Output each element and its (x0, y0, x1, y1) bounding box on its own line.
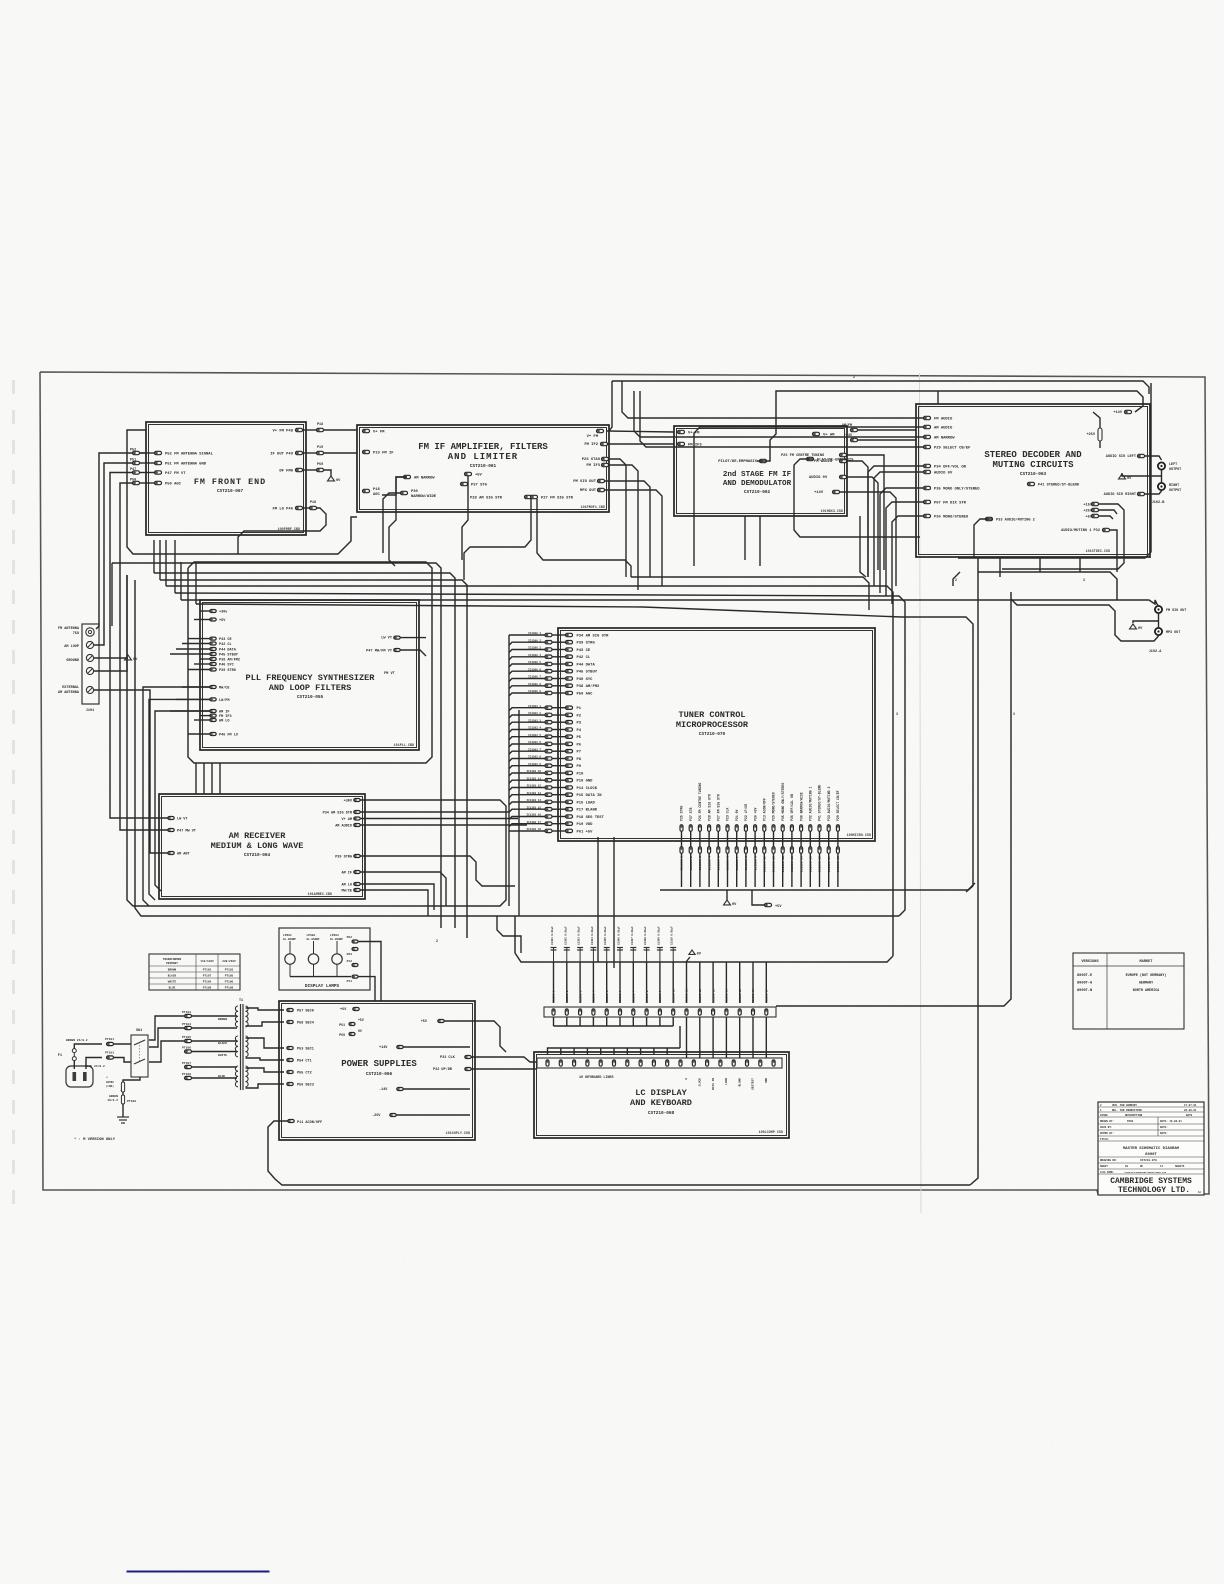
svg-text:P3: P3 (577, 722, 582, 726)
micro pinB P18 SEG TEST (545, 815, 552, 818)
micro bottom pin P28 AM SIG STR (708, 825, 711, 832)
micro bottom pin P29 MONO/STEREO (772, 825, 775, 832)
keyboard capacitors C1301-C1310 (553, 948, 555, 962)
stereo pin FM AUDIO (924, 416, 931, 419)
svg-text:P12: P12 (347, 960, 353, 963)
svg-text:PRIMARY: PRIMARY (166, 962, 178, 965)
svg-text:V+ AM: V+ AM (341, 818, 352, 822)
svg-text:P39 STRG: P39 STRG (335, 855, 352, 859)
svg-text:BROWN 24/0.2: BROWN 24/0.2 (66, 1038, 88, 1042)
svg-text:WHITE: WHITE (168, 981, 177, 984)
svg-text:2: 2 (853, 375, 855, 379)
svg-text:CST210-064: CST210-064 (244, 853, 271, 858)
svg-text:FM SIG OUT: FM SIG OUT (1166, 609, 1186, 613)
fm if exit P28 sig str (464, 499, 531, 580)
svg-text:+26V: +26V (1086, 433, 1095, 437)
stereo pin P41 STEREO/ST-BLEND (1028, 482, 1035, 485)
pll right vt wires (400, 637, 426, 639)
pll left pin wires (200, 610, 210, 612)
micro bottom pin P36 OFF/CAL ON (790, 825, 793, 832)
svg-text:(LNK): (LNK) (106, 1084, 114, 1088)
block AM RECEIVER CST210-064 (159, 794, 365, 899)
stereo pin AUDIO 0V (924, 470, 931, 473)
svg-text:AND LOOP FILTERS: AND LOOP FILTERS (269, 683, 352, 693)
svg-text:PT109: PT109 (127, 1100, 136, 1103)
fm if pin P19 FM IF (363, 450, 370, 453)
svg-text:AM RECEIVER: AM RECEIVER (229, 831, 287, 841)
micro pinA P42 CL (545, 655, 552, 658)
power pin P58 SEC4 (287, 1021, 293, 1024)
svg-text:P10 GND: P10 GND (577, 780, 594, 784)
block POWER SUPPLIES CST210-066 (279, 1001, 475, 1140)
svg-text:P34 OFF/VOL ON: P34 OFF/VOL ON (934, 465, 967, 470)
svg-text:OUTPUT: OUTPUT (1169, 489, 1181, 493)
fm if right P26 STAG exit (608, 459, 626, 577)
svg-text:P61 +5V: P61 +5V (577, 830, 594, 834)
wire +5V to lcd (444, 1021, 506, 1052)
keyboard row2 bar (537, 1058, 782, 1068)
fm if pin +5V (465, 472, 472, 475)
binder edge dashes (12, 380, 15, 1204)
stereo pin P34 OFF/VOL ON (924, 464, 931, 467)
svg-text:AM IF: AM IF (341, 871, 352, 875)
title block (1098, 1102, 1204, 1195)
svg-text:220/240V: 220/240V (222, 959, 236, 963)
micro pinB P15 DATA IN (545, 793, 552, 796)
stereo pin +26V (1092, 508, 1099, 511)
svg-text:PT107: PT107 (203, 975, 212, 978)
svg-text:P42 CL: P42 CL (219, 643, 232, 647)
micro pinB P4 (545, 728, 552, 731)
svg-text:P60: P60 (317, 463, 323, 467)
svg-text:PT103: PT103 (105, 1052, 114, 1055)
primary tap PT103 (185, 1014, 192, 1017)
svg-text:POWER SUPPLIES: POWER SUPPLIES (341, 1059, 417, 1069)
svg-text:2nd STAGE FM IF: 2nd STAGE FM IF (723, 471, 792, 479)
stereo pin P29 SELECT CB/EF (924, 445, 931, 448)
display lamps box (279, 928, 370, 990)
block STEREO DECODER CST210-063 (916, 404, 1150, 557)
pll pin +30v (210, 610, 216, 613)
svg-text:J102-B: J102-B (1152, 501, 1166, 505)
svg-text:P39 STRG: P39 STRG (219, 669, 236, 673)
stereo +26V feed capsule (1098, 428, 1102, 441)
svg-text:P52 FM ANTENNA SIGNAL: P52 FM ANTENNA SIGNAL (165, 453, 214, 457)
primary tap PT108 (185, 1076, 192, 1079)
svg-text:P36 MONO/STEREO: P36 MONO/STEREO (934, 515, 969, 520)
am rx right wires (360, 800, 506, 890)
svg-text:-26V: -26V (372, 1114, 381, 1118)
lamp LP601 (285, 954, 295, 964)
stereo pin P07 FM DIX STR (924, 500, 931, 503)
micro left bundle (508, 635, 510, 906)
svg-text:P28 AM SIG STR: P28 AM SIG STR (707, 794, 711, 821)
pll pin LW/FM (210, 698, 216, 701)
J102-B left output jack (1158, 462, 1165, 469)
wire P32 UP/DR to lcd (471, 1068, 537, 1070)
svg-text:101AMREC.CBD: 101AMREC.CBD (308, 893, 332, 897)
svg-text:C1309 0.01uF: C1309 0.01uF (657, 926, 660, 945)
svg-text:BROWN: BROWN (218, 1018, 227, 1021)
fm front end external stub P46 fm lo (310, 506, 317, 509)
stage2 pin V+ FM (678, 430, 685, 433)
svg-text:FM FRONT END: FM FRONT END (194, 477, 266, 487)
stereo left pin drops (694, 427, 924, 566)
block FM IF AMPLIFIER CST210-061 (357, 425, 609, 512)
micro pinB P7 (545, 750, 552, 753)
bus 577 line (631, 577, 869, 610)
svg-text:P2: P2 (577, 714, 582, 718)
mains plug (66, 1066, 93, 1087)
stereo pin P36 MONO/STEREO (924, 514, 931, 517)
pll pin P38 AM/FM2 (210, 658, 216, 661)
svg-text:MICROPROCESSOR: MICROPROCESSOR (676, 720, 749, 730)
svg-text:100MICRO.CSD: 100MICRO.CSD (847, 834, 871, 838)
svg-text:FM LO P46: FM LO P46 (272, 508, 293, 512)
svg-text:TITLE:: TITLE: (1100, 1138, 1109, 1141)
bus H7 sloped (196, 604, 973, 886)
svg-text:P9: P9 (577, 765, 582, 769)
pll pin P42 CL (210, 642, 216, 645)
wire front end ring inner (140, 452, 146, 454)
svg-text:PT103: PT103 (225, 969, 234, 972)
fm if right MPX OUT exit (605, 490, 662, 586)
svg-text:GERMANY: GERMANY (1139, 982, 1154, 986)
svg-text:P33 AUDIO/MUTING 2: P33 AUDIO/MUTING 2 (996, 518, 1035, 523)
svg-text:C1306 0.01uF: C1306 0.01uF (618, 926, 621, 945)
versions market table (1073, 953, 1184, 1029)
svg-text:01: 01 (1125, 1165, 1129, 1168)
svg-text:P29 SELECT CB/EF: P29 SELECT CB/EF (934, 446, 971, 451)
svg-text:P37 STG: P37 STG (471, 484, 488, 488)
svg-text:DATE: DATE (1186, 1114, 1193, 1117)
J102-A fm sig out jack (1155, 606, 1162, 613)
svg-text:100LCOMP.CSD: 100LCOMP.CSD (759, 1131, 783, 1135)
svg-text:GREEN: GREEN (109, 1095, 118, 1098)
svg-text:P19 FM IF: P19 FM IF (373, 452, 394, 456)
lamp LP602 (308, 954, 318, 964)
micro bottom pin P32 AUDIO/MUTING 1 (809, 825, 812, 832)
svg-text:+14V: +14V (814, 491, 824, 495)
stage2 bottom exits (744, 516, 746, 560)
svg-text:P29 MONO/STEREO: P29 MONO/STEREO (772, 792, 776, 821)
svg-text:AM LO: AM LO (341, 883, 352, 887)
fm if pin P30 NARROW/WIDE (401, 491, 408, 494)
svg-text:GL-960BP: GL-960BP (307, 938, 320, 941)
pll pin AM LO (210, 719, 216, 722)
svg-text:+30v: +30v (219, 610, 228, 614)
bus H3 (160, 580, 467, 938)
svg-text:P4: P4 (577, 729, 582, 733)
svg-text:P30: P30 (411, 490, 419, 494)
svg-text:SEGTEST: SEGTEST (752, 1078, 755, 1090)
fm if right FM IF3 exit (608, 465, 638, 590)
bus left verticals (111, 563, 113, 626)
svg-text:P44 DATA: P44 DATA (577, 663, 596, 667)
svg-text:LW VT: LW VT (177, 817, 188, 821)
keyboard row1 to row2 wiring (553, 1017, 555, 1026)
wire P11 loop bottom (268, 1121, 970, 1185)
svg-text:P38 AM/FM2: P38 AM/FM2 (577, 684, 601, 689)
fm if pin P37 STG (461, 482, 468, 485)
svg-text:PLL FREQUENCY SYNTHESIZER: PLL FREQUENCY SYNTHESIZER (246, 673, 376, 683)
svg-text:V+ FM: V+ FM (587, 435, 599, 439)
svg-text:P27 FM SIG STR: P27 FM SIG STR (717, 794, 721, 821)
block FM FRONT END CST210-067 (146, 422, 306, 535)
fm if exit +5V (462, 476, 468, 560)
micro pinB P8 (545, 757, 552, 760)
svg-text:BLUE: BLUE (169, 987, 176, 990)
svg-text:C1303 0.01uF: C1303 0.01uF (578, 926, 581, 945)
bus H4 (166, 586, 893, 956)
svg-text:VERSIONS: VERSIONS (1081, 960, 1099, 964)
T1 primary winding 3 (235, 1066, 238, 1071)
fm front end external stub P19 (317, 451, 324, 454)
J102-B right output jack (1158, 483, 1165, 490)
svg-text:P63: P63 (347, 953, 353, 956)
svg-text:REL. FOR PRODUCTION: REL. FOR PRODUCTION (1112, 1109, 1142, 1112)
svg-text:LW/FM: LW/FM (219, 698, 230, 703)
svg-text:BLACK: BLACK (168, 975, 177, 978)
micro bottom pin P41 STEREO/ST-BLEND (818, 825, 821, 832)
am rx pin AM ANT (168, 852, 174, 855)
pll pin +5V (210, 618, 216, 621)
svg-text:2: 2 (955, 578, 957, 582)
svg-text:P37 STB: P37 STB (689, 808, 693, 821)
svg-text:DF FM0: DF FM0 (279, 470, 293, 474)
svg-text:AM IF: AM IF (219, 710, 230, 714)
svg-text:AND KEYBOARD: AND KEYBOARD (630, 1098, 692, 1108)
fm front end external stub P60 + ground (317, 468, 324, 471)
stereo left pin feeds from top bus (622, 381, 924, 418)
svg-text:GROUND: GROUND (66, 659, 79, 663)
svg-text:CST210-063: CST210-063 (1020, 472, 1047, 477)
micro bottom pin P22 LP/DR (744, 825, 747, 832)
svg-text:P19 VDD: P19 VDD (577, 823, 594, 827)
svg-text:NORTH AMERICA: NORTH AMERICA (1133, 989, 1160, 993)
svg-text:PT104: PT104 (203, 981, 212, 984)
svg-text:0V: 0V (358, 1029, 362, 1033)
svg-text:+5V: +5V (475, 474, 483, 478)
svg-text:*: * (120, 1089, 122, 1094)
svg-text:P51 FM ANTENNA GND: P51 FM ANTENNA GND (165, 463, 207, 467)
lamps stub P62 (352, 940, 358, 943)
lamps stub P63 (352, 948, 358, 951)
svg-text:P13 ACON/OFF: P13 ACON/OFF (763, 798, 767, 821)
svg-text:P44 DATA: P44 DATA (219, 648, 237, 652)
svg-text:VER. FOR GERMANY: VER. FOR GERMANY (1112, 1104, 1137, 1107)
svg-text:P18: P18 (317, 423, 323, 427)
fm if exit P27 sig str (537, 499, 631, 577)
fm if bottom exit narrow (383, 493, 401, 553)
wire ext am antenna to am rx (94, 690, 168, 853)
svg-text:-14V: -14V (379, 1088, 388, 1092)
svg-text:P50: P50 (130, 479, 136, 483)
svg-text:PT108: PT108 (203, 987, 212, 990)
micro bottom pin P27 FM SIG STR (717, 825, 720, 832)
svg-text:P26 STAG: P26 STAG (582, 458, 601, 462)
micro bottom pin P29 SELECT CB/EF (836, 825, 839, 832)
svg-text:8000T-G: 8000T-G (1077, 982, 1092, 986)
svg-text:C1304 0.01uF: C1304 0.01uF (591, 926, 594, 945)
svg-text:DATA IN: DATA IN (712, 1078, 715, 1090)
svg-text:F1: F1 (58, 1054, 62, 1058)
power pin P11 ACON/OFF (288, 1120, 294, 1123)
svg-text:AM NARROW: AM NARROW (934, 437, 955, 441)
micro pinB P9 (545, 764, 552, 767)
primary tap PT104 (185, 1026, 192, 1029)
power pin P53 SEC1 (287, 1047, 293, 1050)
svg-text:P33 CLK: P33 CLK (440, 1056, 456, 1060)
stereo pin +15V (1092, 502, 1099, 505)
bus H6 (181, 600, 1157, 604)
fm front end pin P51 (155, 461, 162, 464)
keyboard column feeds (686, 962, 688, 968)
svg-text:8000T-N: 8000T-N (1077, 989, 1092, 993)
J102-B wiring (1145, 456, 1162, 460)
micro pinB P10 GND (545, 779, 552, 782)
pll ring (188, 562, 432, 763)
svg-text:P25 STRG: P25 STRG (680, 806, 684, 821)
svg-text:8000T-E: 8000T-E (1077, 974, 1093, 978)
svg-text:P11: P11 (347, 980, 353, 983)
svg-text:MPX OUT: MPX OUT (1166, 631, 1180, 635)
top bus left drop (609, 381, 612, 431)
bus H1 (112, 563, 441, 928)
svg-text:PT108: PT108 (225, 987, 234, 990)
svg-text:AUDIO SIG LEFT: AUDIO SIG LEFT (1106, 455, 1137, 459)
wire top right second line (612, 381, 1149, 394)
svg-text:P41 STEREO/ST-BLEND: P41 STEREO/ST-BLEND (1038, 483, 1080, 488)
svg-text:3: 3 (1083, 578, 1085, 582)
block 2nd STAGE FM IF CST210-062 (674, 426, 847, 516)
pll pin P46 FM LO (210, 733, 216, 736)
pll pin P45 STBUY (210, 653, 216, 656)
svg-text:P43 CE: P43 CE (577, 649, 591, 653)
J102-A wiring (1157, 604, 1159, 606)
J101 terminal (86, 667, 93, 674)
svg-text:P07 FM DIX STR: P07 FM DIX STR (934, 502, 967, 506)
stage2 pin V+ AM (813, 432, 820, 435)
J102-A mpx out jack (1155, 628, 1162, 635)
svg-text:MPX OUT: MPX OUT (580, 489, 597, 493)
wire P52 to J101 fm antenna (96, 453, 133, 629)
svg-text:P62: P62 (347, 936, 353, 939)
svg-text:LC DISPLAY: LC DISPLAY (635, 1088, 687, 1098)
fm if pin V+ FM left (363, 429, 370, 432)
bus H5 (175, 593, 905, 916)
svg-text:TECHNOLOGY LTD.: TECHNOLOGY LTD. (1118, 1186, 1190, 1195)
svg-text:AUDIO SIG RIGHT: AUDIO SIG RIGHT (1104, 493, 1137, 497)
svg-text:LEFT: LEFT (1169, 463, 1177, 467)
svg-text:ASTRA: ASTRA (106, 1081, 114, 1084)
svg-text:101PLL.CBD: 101PLL.CBD (394, 744, 414, 748)
micro pinA P34 AM SIG STR (545, 633, 552, 636)
micro pinB P17 BLANK (545, 808, 552, 811)
svg-text:RIGHT: RIGHT (1169, 484, 1179, 488)
svg-text:FM IF AMPLIFIER, FILTERS: FM IF AMPLIFIER, FILTERS (418, 442, 548, 452)
fm front end pin P52 (155, 451, 162, 454)
micro pinB P19 VDD (545, 822, 552, 825)
svg-text:CAMBRIDGE SYSTEMS: CAMBRIDGE SYSTEMS (1110, 1177, 1192, 1186)
svg-text:\CAMSYS\CSMHOLOGY\8000T\MAIN.S: \CAMSYS\CSMHOLOGY\8000T\MAIN.SCH (1124, 1171, 1167, 1174)
svg-text:CST210-068: CST210-068 (648, 1111, 675, 1116)
stage2 centre tuning wire (846, 455, 884, 516)
svg-text:P40 SYC: P40 SYC (577, 678, 594, 682)
power top feed wire (497, 916, 521, 953)
svg-text:AGC: AGC (373, 493, 381, 497)
svg-text:P8: P8 (577, 758, 582, 762)
fm front end pin P50 (155, 481, 162, 484)
micro bottom pin P23 CLK (726, 825, 729, 832)
wire fm lo loop (238, 508, 326, 554)
keyboard feed trunk (515, 953, 688, 962)
svg-text:CST210-066: CST210-066 (366, 1072, 393, 1077)
svg-text:BLUE 24/0.2: BLUE 24/0.2 (85, 1064, 105, 1068)
svg-text:P55 CT2: P55 CT2 (297, 1071, 312, 1075)
fm if pin AM NARROW (404, 475, 411, 478)
svg-text:PT107: PT107 (182, 1062, 191, 1065)
svg-text:DRAWN BY:: DRAWN BY: (1100, 1120, 1114, 1123)
svg-text:AM ANTENNA: AM ANTENNA (58, 691, 80, 695)
wire P47 bundle (110, 473, 168, 819)
svg-text:P26 FM CENTRE TUNING: P26 FM CENTRE TUNING (781, 454, 824, 458)
svg-text:AM ANT: AM ANT (177, 852, 190, 856)
primary tap PT105 (185, 1039, 192, 1042)
svg-text:FM IF3: FM IF3 (586, 464, 600, 468)
svg-text:P58 SEC4: P58 SEC4 (297, 1021, 314, 1025)
switch to PT109 green ground (121, 1082, 124, 1092)
svg-text:+5V: +5V (421, 1020, 428, 1024)
big loop left (135, 580, 899, 916)
svg-text:P39 STRG: P39 STRG (577, 642, 596, 646)
pll pin MW/CE (210, 686, 216, 689)
svg-text:101PROF1.CBD: 101PROF1.CBD (581, 506, 605, 510)
power pin P55 CT2 (287, 1071, 293, 1074)
svg-text:C1301 0.01uF: C1301 0.01uF (551, 926, 554, 945)
svg-text:TRANSFORMER: TRANSFORMER (163, 958, 182, 961)
svg-text:FM AUDIO: FM AUDIO (934, 418, 953, 422)
svg-text:DATE:: DATE: (1160, 1126, 1168, 1129)
svg-text:PT108: PT108 (182, 1073, 191, 1076)
micro pinA P45 STBUY (545, 670, 552, 673)
micro bottom bus (660, 883, 975, 890)
svg-text:P29 SELECT CB/EF: P29 SELECT CB/EF (836, 790, 840, 821)
lamp LP603 (332, 954, 342, 964)
svg-text:26-06-91: 26-06-91 (1184, 1109, 1197, 1112)
svg-text:P35 MONO ONLY/STEREO: P35 MONO ONLY/STEREO (934, 487, 980, 492)
svg-text:MW/CE: MW/CE (341, 888, 352, 893)
svg-text:P11 ACON/OFF: P11 ACON/OFF (297, 1120, 322, 1125)
am rx pin P47 MW VT (168, 829, 174, 832)
svg-text:T1: T1 (239, 999, 243, 1003)
svg-text:+14V: +14V (1113, 411, 1122, 415)
micro pinB P2 (545, 713, 552, 716)
svg-text:CST210-062: CST210-062 (744, 490, 771, 495)
svg-text:AM NARROW: AM NARROW (414, 477, 435, 481)
svg-text:P35 MONO ONLY/STEREO: P35 MONO ONLY/STEREO (781, 783, 785, 821)
svg-text:P21 0V: P21 0V (735, 809, 739, 821)
micro pinA P39 STRG (545, 641, 552, 644)
svg-text:110/120V: 110/120V (200, 959, 214, 963)
svg-text:P57 SEC0: P57 SEC0 (297, 1009, 314, 1013)
stereo muting wires (1109, 530, 1117, 572)
pll drops to am receiver (143, 687, 210, 906)
wire P50 bundle (120, 483, 168, 830)
micro pinB P16 LOAD (545, 800, 552, 803)
micro bus ground (726, 890, 728, 900)
svg-text:11: 11 (1160, 1165, 1164, 1168)
